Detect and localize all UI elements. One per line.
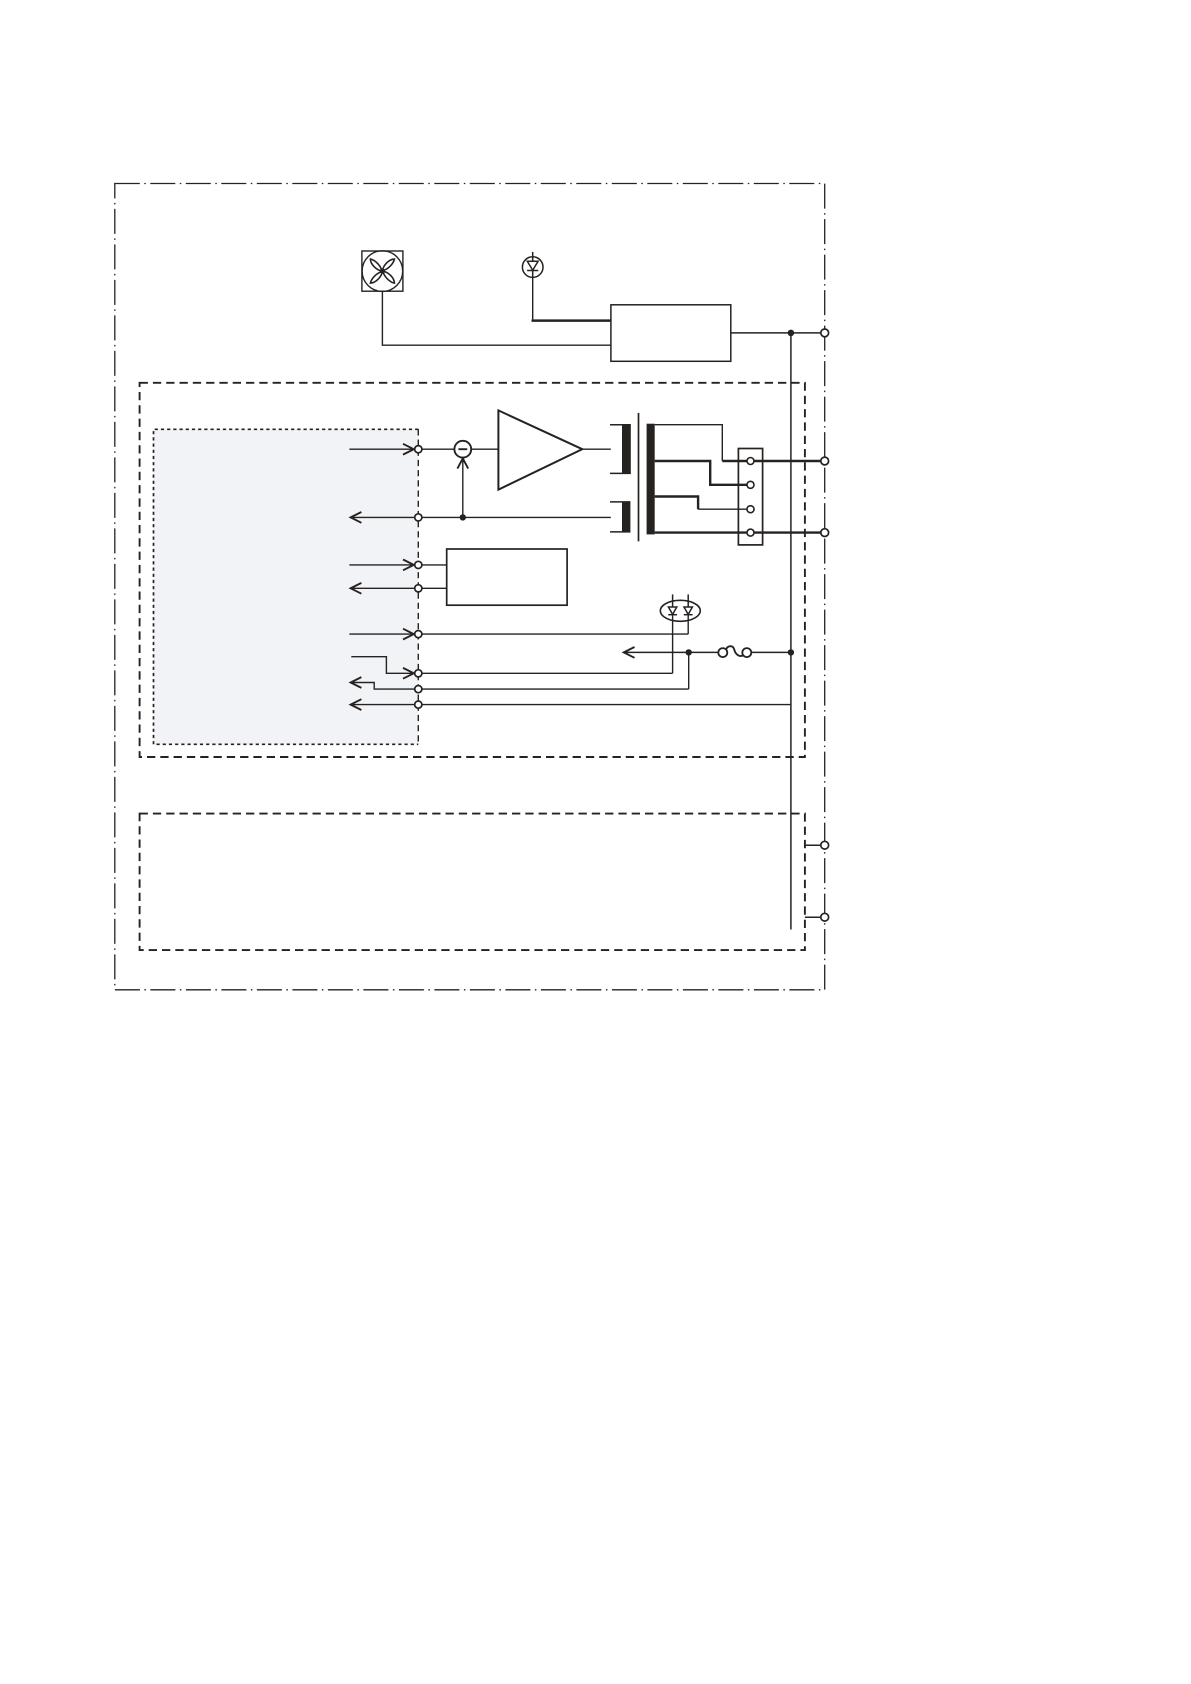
- terminal T8: [415, 701, 422, 708]
- wire T3 to monitor box: [422, 564, 447, 566]
- feedback branch wire with up arrow: [457, 458, 468, 517]
- terminal T2 output wire with arrow: [351, 512, 415, 523]
- fan M1: [362, 251, 403, 292]
- connector pin 4: [747, 529, 754, 536]
- terminal T3: [415, 561, 422, 568]
- summing point S1: [454, 441, 471, 458]
- wire summing point to amplifier: [471, 448, 498, 450]
- op-amp power amplifier A1: [498, 410, 582, 489]
- border terminal speaker COM: [821, 529, 829, 537]
- control box U1: [611, 305, 731, 362]
- border terminal AC IN 1: [821, 841, 829, 849]
- wire LED horizontal run (thick): [532, 319, 611, 322]
- wire fan to control box: [382, 291, 611, 345]
- border terminal AC feed: [821, 329, 829, 337]
- connector pin 3: [747, 506, 754, 513]
- terminal T2: [415, 514, 422, 521]
- terminal T3 input wire with arrow: [349, 560, 414, 571]
- junction at AC feed node: [788, 330, 795, 337]
- wire AC node to T7 line: [688, 652, 690, 689]
- wire control box to AC terminal: [731, 332, 821, 334]
- wire T2 feedback line: [422, 516, 611, 518]
- border terminal AC IN 2: [821, 913, 829, 921]
- outer enclosure dash-dot border: [115, 184, 825, 990]
- vertical bus wire: [790, 333, 792, 930]
- border terminal speaker 100V: [821, 457, 829, 465]
- wire tap1 to output terminal 100V: [722, 460, 821, 462]
- wire fuse to bus: [751, 651, 791, 653]
- wire T1 to summing point: [422, 448, 455, 450]
- terminal T7: [415, 686, 422, 693]
- junction AC node: [686, 649, 692, 655]
- wire LED to control box: [532, 277, 534, 319]
- terminal T5: [415, 631, 422, 638]
- speaker output connector CN1: [738, 449, 762, 545]
- terminal T4 output wire with arrow: [351, 583, 415, 594]
- fuse F1: [718, 646, 751, 657]
- terminal T5 input wire with arrow: [349, 629, 414, 640]
- terminal T7 output wire stepped with arrow: [351, 677, 415, 689]
- dual diode D2: [660, 594, 700, 621]
- transformer T secondary winding: [647, 424, 655, 535]
- controller module dotted box: [154, 429, 419, 744]
- wire left diode to T6 line: [672, 615, 674, 674]
- terminal T8 output wire with arrow: [351, 699, 415, 710]
- wire stub to terminal AC IN 1: [805, 844, 821, 846]
- transformer T primary lower winding: [610, 502, 630, 532]
- transformer T core: [638, 413, 640, 542]
- wire amplifier to transformer primary: [582, 448, 611, 450]
- connector pin 2: [747, 481, 754, 488]
- secondary tap 3 wire: [655, 497, 747, 510]
- wire T4 to monitor box: [422, 587, 447, 589]
- power supply unit dashed box: [140, 814, 805, 951]
- wire T7 to AC branch: [422, 688, 689, 690]
- junction feedback node: [460, 514, 466, 520]
- terminal T6: [415, 670, 422, 677]
- terminal T4: [415, 585, 422, 592]
- wire stub to terminal AC IN 2: [805, 916, 821, 918]
- wire right diode to T5 line: [687, 615, 689, 634]
- secondary common wire to output terminal COM: [655, 531, 821, 533]
- secondary tap 1 wire: [655, 425, 723, 461]
- AC line wire with arrow: [624, 647, 720, 658]
- connector pin 1: [747, 458, 754, 465]
- LED D1: [522, 252, 543, 278]
- transformer T primary upper winding: [610, 425, 631, 474]
- terminal T6 input wire stepped with arrow: [351, 657, 414, 679]
- terminal T1 input wire with arrow: [349, 444, 414, 455]
- terminal T1: [415, 446, 422, 453]
- secondary tap 2 wire: [655, 461, 747, 485]
- wire T8 to bus: [422, 704, 791, 706]
- junction bus AC node: [788, 649, 794, 655]
- wire T6 to photocoupler: [422, 672, 673, 674]
- monitor box U2: [447, 549, 567, 605]
- amplifier unit dashed box: [140, 383, 805, 757]
- wire T5 to photocoupler: [422, 633, 688, 635]
